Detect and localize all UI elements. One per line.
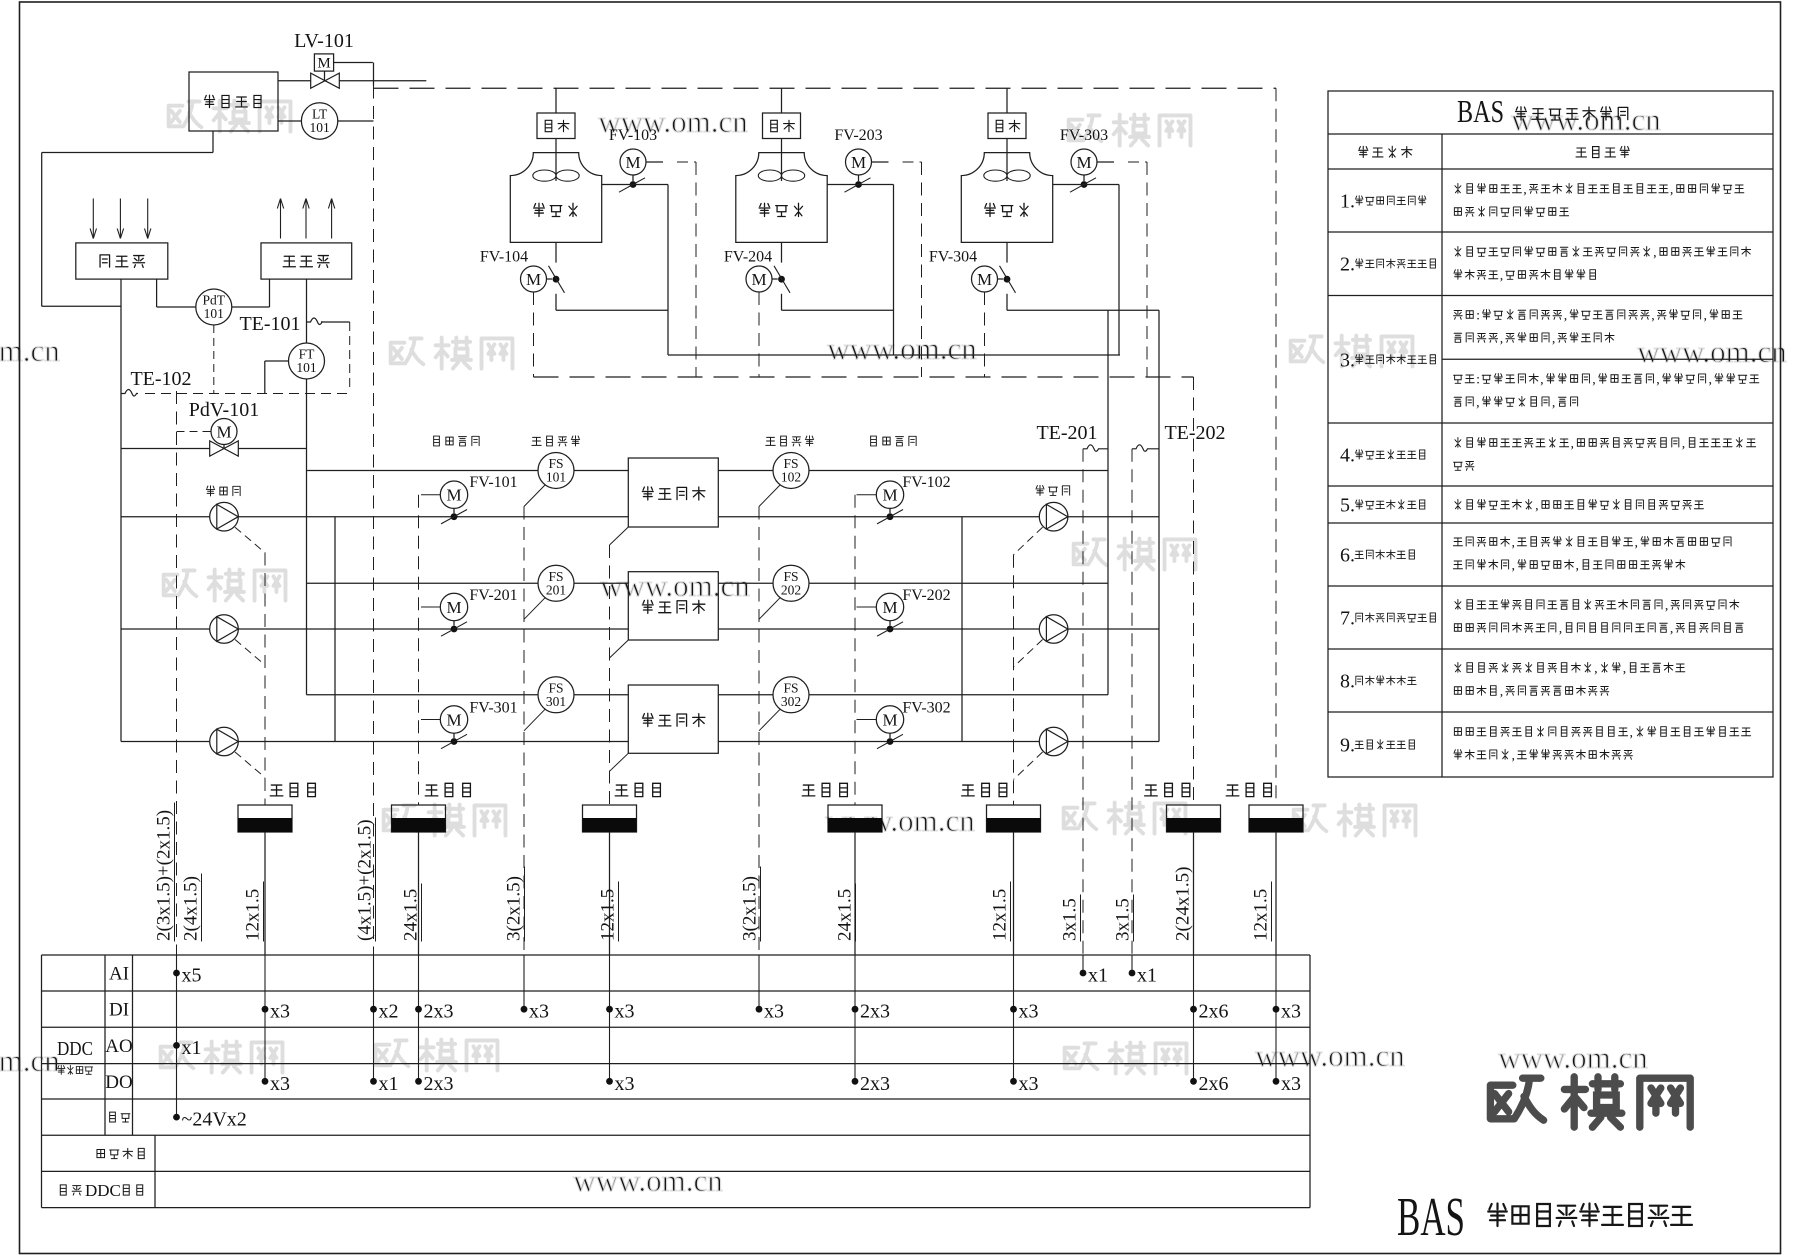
svg-text:,: , xyxy=(1559,622,1563,637)
svg-text:2.: 2. xyxy=(1340,254,1355,276)
terminal point x=759 xyxy=(756,955,784,1023)
svg-text:,: , xyxy=(1476,396,1480,411)
svg-text:2(24x1.5): 2(24x1.5) xyxy=(1173,867,1194,941)
signal: bus riser to box6 xyxy=(1193,377,1195,805)
svg-text:,: , xyxy=(1564,309,1568,324)
wire: condenser cross tie xyxy=(961,517,963,742)
cable label 12x1.5 xyxy=(598,882,619,942)
wire: supply cross tie xyxy=(334,517,336,742)
svg-text:,: , xyxy=(1500,269,1504,284)
wire: chilled supply line row 2 xyxy=(307,582,1109,584)
svg-text:M: M xyxy=(446,598,461,617)
wire: box #1 to terminal table xyxy=(264,832,266,955)
signal riser R5 (FS-x01) xyxy=(523,507,525,956)
signal: pump 1 to riser xyxy=(235,527,265,553)
svg-text:301: 301 xyxy=(546,694,566,709)
svg-text:x3: x3 xyxy=(1281,1073,1301,1095)
cooling tower 冷却塔 #1 xyxy=(510,153,601,243)
cable label 12x1.5 xyxy=(1251,882,1272,942)
svg-text:,: , xyxy=(1635,536,1639,551)
svg-text:2(3x1.5)+(2x1.5): 2(3x1.5)+(2x1.5) xyxy=(154,810,175,941)
svg-text:202: 202 xyxy=(781,582,801,597)
valve LV-101 xyxy=(294,30,354,88)
cooling tower 冷却塔 #2 xyxy=(736,153,827,243)
svg-text:M: M xyxy=(1076,153,1091,172)
wire: tank supply pipe xyxy=(278,80,426,82)
signal: cooling pump 1 to riser xyxy=(1014,527,1043,555)
svg-text:M: M xyxy=(625,153,640,172)
svg-text:DDC: DDC xyxy=(57,1038,93,1060)
valve FV-101 xyxy=(421,474,518,524)
DDC terminal table frame xyxy=(42,955,1311,1208)
svg-text:12x1.5: 12x1.5 xyxy=(598,889,619,941)
cooling pump 冷却泵 row 3 xyxy=(1039,727,1068,756)
svg-text:4.: 4. xyxy=(1340,445,1355,467)
chilled water pump 冷冻泵 row 3 xyxy=(210,727,239,756)
svg-text:M: M xyxy=(851,153,866,172)
terminal point x=610 xyxy=(606,955,634,1095)
svg-text:x1: x1 xyxy=(1088,965,1108,987)
svg-text:www.om.cn: www.om.cn xyxy=(1255,1038,1405,1073)
signal: chiller 1 to riser xyxy=(610,527,629,545)
cable label 3x1.5 xyxy=(1113,895,1134,942)
svg-text:DI: DI xyxy=(109,1000,129,1021)
signal riser R8 (FV-x02 valves) xyxy=(854,495,856,805)
svg-text:M: M xyxy=(526,270,541,289)
svg-text:,: , xyxy=(1653,246,1657,261)
valve FV-202 xyxy=(857,587,951,636)
svg-text:FV-302: FV-302 xyxy=(902,700,950,717)
svg-text:2x3: 2x3 xyxy=(860,1073,890,1095)
svg-text:TE-101: TE-101 xyxy=(239,313,300,335)
differential pressure transmitter PdT-101 xyxy=(157,279,270,325)
function table header xyxy=(1457,93,1628,129)
distribution box 配电箱 #3 xyxy=(583,783,661,832)
svg-text:,: , xyxy=(1500,332,1504,347)
terminal point x=418 xyxy=(415,955,453,1095)
fan 风扇 #3 xyxy=(988,88,1026,181)
cable label 2(4x1.5) xyxy=(181,874,202,942)
svg-text:3(2x1.5): 3(2x1.5) xyxy=(504,876,525,941)
svg-text:(4x1.5)+(2x1.5): (4x1.5)+(2x1.5) xyxy=(355,819,376,941)
valve FV-203 xyxy=(834,127,882,192)
signal riser R1 (sensors AI) xyxy=(176,391,178,955)
svg-text:FV-202: FV-202 xyxy=(902,587,950,604)
function table item labels xyxy=(1340,191,1435,757)
svg-text:101: 101 xyxy=(309,120,329,135)
svg-text:8.: 8. xyxy=(1340,671,1355,693)
wire: chilled supply line row 1 xyxy=(307,470,1109,472)
chiller unit 冷水机组 row 1 xyxy=(628,458,718,527)
valve FV-102 xyxy=(857,474,951,524)
fan 风扇 #2 xyxy=(763,88,801,181)
distribution box 配电箱 #2 xyxy=(392,783,471,832)
svg-text:,: , xyxy=(1594,662,1598,677)
svg-text:101: 101 xyxy=(296,360,316,375)
valve FV-304 xyxy=(929,249,1016,293)
cable label 3(2x1.5) xyxy=(740,867,761,942)
control bus (top, fans) xyxy=(374,87,1277,89)
svg-text:TE-102: TE-102 xyxy=(130,368,191,390)
svg-text:M: M xyxy=(882,711,897,730)
svg-text:7.: 7. xyxy=(1340,608,1355,630)
svg-text:2(4x1.5): 2(4x1.5) xyxy=(181,876,202,941)
signal: PdT-101 to trunk xyxy=(213,325,215,394)
svg-text:TE-202: TE-202 xyxy=(1164,422,1225,444)
svg-text:,: , xyxy=(1512,559,1516,574)
svg-text::: : xyxy=(1476,373,1480,388)
terminal point x=265 xyxy=(262,955,290,1095)
svg-text:www.om.cn: www.om.cn xyxy=(0,333,60,368)
signal: FV-104 to bus xyxy=(533,292,535,377)
svg-text:,: , xyxy=(1651,309,1655,324)
svg-text:x3: x3 xyxy=(270,1001,290,1023)
wire: return/condenser line row 1 xyxy=(121,516,1159,518)
svg-text:,: , xyxy=(1512,536,1516,551)
svg-text:FV-103: FV-103 xyxy=(609,127,657,144)
wire: tower bottom outlet xyxy=(782,242,894,310)
cable label 12x1.5 xyxy=(990,882,1011,942)
temperature sensor TE-201 xyxy=(1036,310,1108,695)
svg-text:3.: 3. xyxy=(1340,349,1355,371)
svg-text:M: M xyxy=(882,598,897,617)
svg-text:x3: x3 xyxy=(1019,1001,1039,1023)
svg-text:9.: 9. xyxy=(1340,735,1355,757)
svg-text:101: 101 xyxy=(204,306,224,321)
svg-text:x3: x3 xyxy=(270,1073,290,1095)
svg-text:x3: x3 xyxy=(615,1001,635,1023)
signal: cooling pump 2 to riser xyxy=(1014,640,1043,668)
expansion tank 膨胀水箱 xyxy=(189,72,278,131)
svg-text:M: M xyxy=(446,486,461,505)
svg-text:x3: x3 xyxy=(615,1073,635,1095)
wire: tower bottom outlet xyxy=(556,242,668,310)
chiller unit 冷水机组 row 3 xyxy=(628,685,718,753)
svg-text:,: , xyxy=(1682,437,1686,452)
svg-text:3(2x1.5): 3(2x1.5) xyxy=(740,876,761,941)
svg-text:x1: x1 xyxy=(379,1073,399,1095)
svg-text:,: , xyxy=(1670,183,1674,198)
signal: FV-203 to bus xyxy=(872,162,922,377)
svg-text:M: M xyxy=(751,270,766,289)
svg-text:302: 302 xyxy=(781,694,801,709)
terminal point x=1132 xyxy=(1129,955,1157,987)
chilled water pump 冷冻泵 row 1 xyxy=(206,486,240,531)
svg-text:,: , xyxy=(1512,749,1516,764)
signal: fan bus riser to box7 xyxy=(1275,88,1277,805)
terminal point x=524 xyxy=(521,955,549,1023)
distribution box 配电箱 #4 xyxy=(802,783,882,832)
svg-text:www.om.cn: www.om.cn xyxy=(0,1043,60,1078)
svg-text:,: , xyxy=(1656,373,1660,388)
wire: bypass line xyxy=(121,448,307,450)
svg-text:,: , xyxy=(1576,559,1580,574)
svg-text:2x6: 2x6 xyxy=(1199,1001,1229,1023)
cooling pump 冷却泵 row 1 xyxy=(1036,485,1070,531)
signal riser R9 (cooling pumps) xyxy=(1013,555,1015,805)
svg-text:,: , xyxy=(1623,662,1627,677)
wire: box #2 to terminal table xyxy=(418,832,420,955)
terminal point x=855 xyxy=(852,955,890,1095)
svg-text:12x1.5: 12x1.5 xyxy=(990,889,1011,941)
big watermark logo 欧模网 xyxy=(1490,1077,1690,1127)
flow switch FS202 xyxy=(759,565,809,619)
svg-text:PdV-101: PdV-101 xyxy=(189,399,259,421)
valve FV-104 xyxy=(480,249,565,293)
svg-text:,: , xyxy=(1535,499,1539,514)
chiller unit 冷水机组 row 2 xyxy=(628,572,718,640)
temperature sensor TE-202 xyxy=(1132,310,1226,741)
cooling tower 冷却塔 #3 xyxy=(961,153,1052,243)
svg-text:M: M xyxy=(317,56,330,72)
valve FV-301 xyxy=(421,700,518,749)
distribution box 配电箱 #7 xyxy=(1226,783,1303,832)
svg-text:FV-303: FV-303 xyxy=(1060,127,1108,144)
signal: pump 3 to riser xyxy=(235,752,265,778)
valve FV-201 xyxy=(421,587,518,636)
svg-text:2x3: 2x3 xyxy=(424,1073,454,1095)
svg-text:x3: x3 xyxy=(529,1001,549,1023)
cable label 3(2x1.5) xyxy=(504,867,525,942)
distribution box 配电箱 #1 xyxy=(238,783,315,832)
wire: box #5 to terminal table xyxy=(1013,832,1015,955)
svg-text:,: , xyxy=(1704,309,1708,324)
terminal point x=1083 xyxy=(1080,955,1108,987)
wire: supply main riser xyxy=(306,279,308,695)
svg-text:,: , xyxy=(1709,373,1713,388)
svg-text:3x1.5: 3x1.5 xyxy=(1113,898,1134,941)
svg-text:24x1.5: 24x1.5 xyxy=(401,889,422,941)
svg-text:5.: 5. xyxy=(1340,495,1355,517)
signal: pump 2 to riser xyxy=(235,640,265,666)
svg-text:FV-301: FV-301 xyxy=(469,700,517,717)
flow switch FS302 xyxy=(759,677,809,731)
svg-text:FV-304: FV-304 xyxy=(929,249,977,266)
svg-text:2x3: 2x3 xyxy=(860,1001,890,1023)
valve FV-303 xyxy=(1060,127,1108,192)
svg-text:www.om.cn: www.om.cn xyxy=(827,331,977,366)
function table method text xyxy=(1453,183,1758,764)
flow switch FS101 xyxy=(524,453,574,507)
wire: condenser header xyxy=(668,354,1120,356)
svg-text:www.om.cn: www.om.cn xyxy=(573,1163,723,1198)
cable label 3x1.5 xyxy=(1060,895,1081,942)
svg-text:x1: x1 xyxy=(1137,965,1157,987)
wire: box #7 to terminal table xyxy=(1275,832,1277,955)
labels: butterfly valve / flow switch headers xyxy=(434,436,917,446)
function table column heads xyxy=(1359,146,1630,157)
svg-text:DDC: DDC xyxy=(85,1181,121,1200)
distribution box 配电箱 #5 xyxy=(962,783,1041,832)
cable label 2(3x1.5)+(2x1.5) xyxy=(154,803,175,942)
cooling pump 冷却泵 row 2 xyxy=(1039,615,1068,644)
signal riser R2 (chilled pumps) xyxy=(264,553,266,806)
svg-text:LV-101: LV-101 xyxy=(294,30,354,52)
temperature sensor TE-102 xyxy=(121,368,192,396)
svg-text:FV-201: FV-201 xyxy=(469,587,517,604)
svg-text:AO: AO xyxy=(105,1036,132,1057)
svg-text:102: 102 xyxy=(781,470,801,485)
svg-text:FV-104: FV-104 xyxy=(480,249,528,266)
signal: FV-204 to bus xyxy=(758,292,760,377)
cable label 2(24x1.5) xyxy=(1173,855,1194,942)
svg-text:2x3: 2x3 xyxy=(424,1001,454,1023)
signal: PdV-101 actuator xyxy=(177,431,212,433)
svg-text:x3: x3 xyxy=(1281,1001,1301,1023)
svg-text:BAS: BAS xyxy=(1457,93,1504,129)
signal: TE-201 riser xyxy=(1082,449,1084,955)
chilled water pump 冷冻泵 row 2 xyxy=(210,615,239,644)
svg-text:FV-101: FV-101 xyxy=(469,474,517,491)
flow transmitter FT-101 xyxy=(265,343,325,394)
svg-text:201: 201 xyxy=(546,582,566,597)
svg-text:,: , xyxy=(1523,183,1527,198)
wire: tower outlet top xyxy=(602,185,668,356)
svg-text:www.om.cn: www.om.cn xyxy=(1637,334,1787,369)
svg-text:,: , xyxy=(1592,373,1596,388)
terminal point x=374 xyxy=(370,955,398,1095)
signal: TE-202 riser xyxy=(1131,449,1133,955)
signal: FV-304 to bus xyxy=(984,292,986,377)
svg-text:TE-201: TE-201 xyxy=(1036,422,1097,444)
valve FV-204 xyxy=(724,249,790,293)
svg-text:3x1.5: 3x1.5 xyxy=(1060,898,1081,941)
svg-text:x2: x2 xyxy=(379,1001,399,1023)
svg-text:x3: x3 xyxy=(764,1001,784,1023)
svg-text:,: , xyxy=(1665,599,1669,614)
svg-text:101: 101 xyxy=(546,470,566,485)
svg-text:FV-204: FV-204 xyxy=(724,249,772,266)
wire: return main riser xyxy=(120,279,122,741)
DDC table labels xyxy=(57,964,144,1201)
svg-text:,: , xyxy=(1670,622,1674,637)
svg-text:12x1.5: 12x1.5 xyxy=(1251,889,1272,941)
signal: FV-103 to bus xyxy=(646,162,696,377)
fan 风扇 #1 xyxy=(537,88,575,181)
wire: tower bottom outlet xyxy=(1007,242,1159,310)
signal riser R4 (FV-x01 valves) xyxy=(418,495,420,805)
svg-text:,: , xyxy=(1571,437,1575,452)
cable label 24x1.5 xyxy=(835,884,856,942)
wire: tower outlet top xyxy=(1053,185,1119,356)
svg-text:,: , xyxy=(1630,726,1634,741)
svg-text:~24Vx2: ~24Vx2 xyxy=(182,1109,247,1131)
terminal point x=1014 xyxy=(1010,955,1038,1095)
svg-text:,: , xyxy=(1552,396,1556,411)
terminal point x=1276 xyxy=(1273,955,1301,1095)
level transmitter LT-101 xyxy=(278,103,374,139)
bypass valve PdV-101 xyxy=(189,399,259,456)
wire: tank drain to return main xyxy=(42,131,213,306)
signal: chiller 2 to riser xyxy=(610,640,629,658)
distribution box 配电箱 #6 xyxy=(1145,783,1221,832)
BAS function table frame xyxy=(1328,91,1773,777)
svg-text:FV-203: FV-203 xyxy=(834,127,882,144)
svg-text:2x6: 2x6 xyxy=(1199,1073,1229,1095)
flow switch FS201 xyxy=(524,565,574,619)
flow switch FS301 xyxy=(524,677,574,731)
wire: tower outlet top xyxy=(827,185,893,356)
signal trunk to DDC xyxy=(145,393,350,395)
terminal point x=1194 xyxy=(1190,955,1228,1095)
control bus (towers valves) xyxy=(534,376,1194,378)
wire: box #6 to terminal table xyxy=(1193,832,1195,955)
svg-text:www.om.cn: www.om.cn xyxy=(600,568,750,603)
svg-text:DO: DO xyxy=(105,1072,132,1093)
wire: return/condenser line row 2 xyxy=(121,628,1159,630)
water collector 集水器 xyxy=(76,199,168,280)
svg-text:24x1.5: 24x1.5 xyxy=(835,889,856,941)
svg-text:12x1.5: 12x1.5 xyxy=(243,889,264,941)
svg-text:M: M xyxy=(882,486,897,505)
terminal point x=176 xyxy=(173,955,247,1131)
svg-text:M: M xyxy=(216,423,231,442)
svg-text:x3: x3 xyxy=(1019,1073,1039,1095)
cable label 12x1.5 xyxy=(243,882,264,942)
svg-text:x1: x1 xyxy=(182,1037,202,1059)
svg-text:www.om.cn: www.om.cn xyxy=(1498,1040,1648,1075)
signal riser R3 (LV-101) xyxy=(373,86,375,956)
svg-text:M: M xyxy=(977,270,992,289)
valve FV-103 xyxy=(609,127,657,192)
wire: LV-101 actuator to riser xyxy=(334,63,374,86)
signal riser R7 (FS-x02) xyxy=(758,507,760,956)
wire: box #3 to terminal table xyxy=(609,832,611,955)
svg-text:FV-102: FV-102 xyxy=(902,474,950,491)
cable label 24x1.5 xyxy=(401,884,422,942)
svg-text:1.: 1. xyxy=(1340,191,1355,213)
wire: return/condenser line row 3 xyxy=(121,741,1159,743)
svg-text:,: , xyxy=(1540,373,1544,388)
signal riser R6 (chillers) xyxy=(609,545,611,805)
svg-text:M: M xyxy=(446,711,461,730)
svg-text:6.: 6. xyxy=(1340,545,1355,567)
drawing title BAS 冷冻系统监控系统图 xyxy=(1397,1186,1692,1247)
flow switch FS102 xyxy=(759,453,809,507)
signal: chiller 3 to riser xyxy=(610,753,629,771)
temperature sensor TE-101 xyxy=(239,313,349,391)
signal: cooling pump 3 to riser xyxy=(1014,752,1043,780)
wire: box #4 to terminal table xyxy=(854,832,856,955)
svg-text:x5: x5 xyxy=(182,965,202,987)
water distributor 分水器 xyxy=(261,199,352,280)
cable label (4x1.5)+(2x1.5) xyxy=(355,818,376,942)
svg-text::: : xyxy=(1476,309,1480,324)
valve FV-302 xyxy=(857,700,951,749)
signal: FV-303 to bus xyxy=(1097,162,1147,377)
svg-text:,: , xyxy=(1552,332,1556,347)
svg-text:,: , xyxy=(1500,685,1504,700)
wire: chilled supply line row 3 xyxy=(307,694,1109,696)
svg-text:BAS: BAS xyxy=(1397,1186,1465,1247)
svg-text:AI: AI xyxy=(109,964,129,985)
